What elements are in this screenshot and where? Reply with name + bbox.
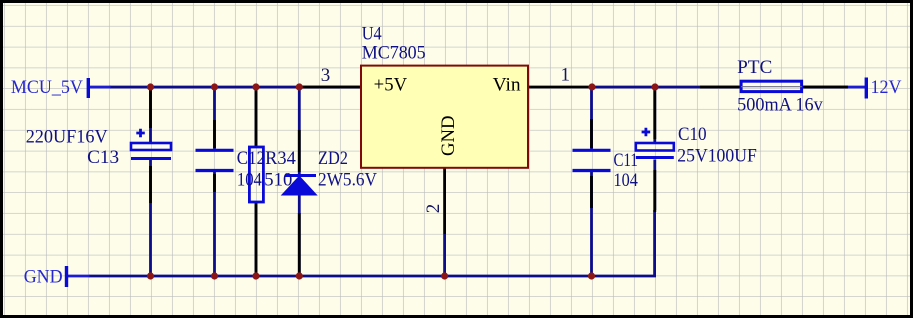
svg-text:25V100UF: 25V100UF — [677, 147, 757, 167]
svg-text:MC7805: MC7805 — [362, 43, 426, 63]
svg-text:510: 510 — [264, 170, 292, 190]
svg-text:12V: 12V — [871, 77, 902, 98]
svg-text:U4: U4 — [362, 25, 382, 45]
svg-text:PTC: PTC — [737, 58, 772, 78]
svg-text:104: 104 — [614, 171, 638, 191]
svg-text:3: 3 — [321, 65, 331, 86]
svg-text:C13: C13 — [87, 148, 119, 168]
svg-text:C11: C11 — [614, 151, 638, 171]
svg-text:GND: GND — [439, 116, 459, 157]
svg-text:Vin: Vin — [493, 76, 521, 96]
svg-text:2: 2 — [423, 204, 444, 214]
svg-text:R34: R34 — [265, 149, 296, 169]
svg-text:220UF16V: 220UF16V — [26, 128, 109, 148]
svg-text:104: 104 — [237, 170, 262, 190]
svg-text:2W5.6V: 2W5.6V — [318, 170, 378, 190]
svg-text:C12: C12 — [237, 149, 265, 169]
svg-text:+5V: +5V — [374, 76, 408, 96]
svg-text:ZD2: ZD2 — [318, 149, 348, 169]
svg-text:500mA 16v: 500mA 16v — [737, 96, 823, 116]
svg-text:1: 1 — [561, 65, 571, 86]
svg-text:GND: GND — [24, 266, 63, 287]
svg-text:MCU_5V: MCU_5V — [11, 77, 83, 98]
svg-text:C10: C10 — [678, 125, 707, 145]
